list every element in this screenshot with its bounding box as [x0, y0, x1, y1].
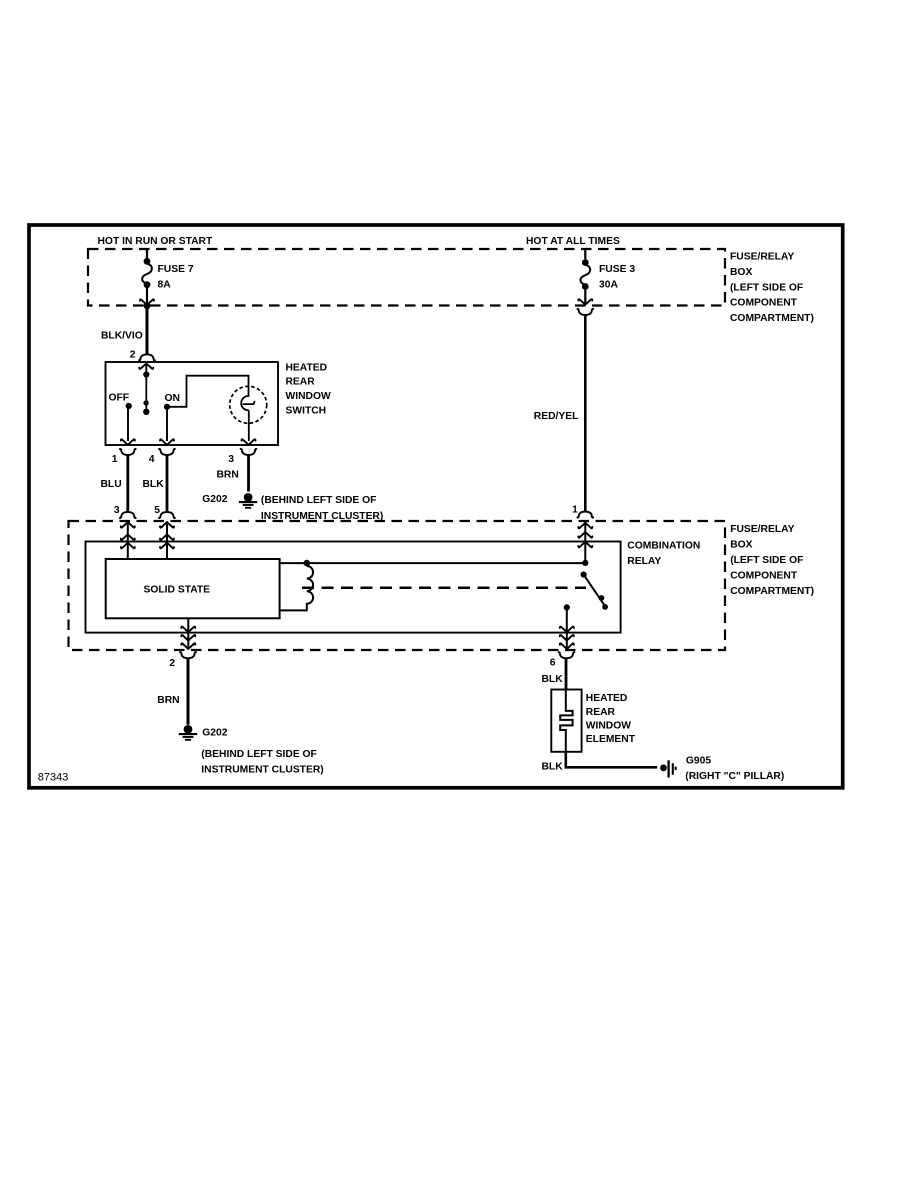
svg-text:(RIGHT "C" PILLAR): (RIGHT "C" PILLAR) [685, 771, 784, 782]
heated rear window switch box U1 [106, 362, 279, 445]
arrowhead into switch pin 2 [139, 363, 153, 369]
svg-text:FUSE/RELAY: FUSE/RELAY [730, 252, 794, 263]
wire relay output to pin 6 [566, 607, 568, 649]
svg-text:8A: 8A [158, 280, 172, 291]
blade dot a [599, 595, 605, 601]
blade dot b [602, 604, 608, 610]
label FUSE/RELAY BOX (LEFT SIDE OF COMPONENT COMPARTMENT) bottom [730, 524, 814, 597]
junction dot at contact feed [582, 560, 588, 566]
outer diagram border frame [29, 225, 843, 788]
junction dot on fuse box edge [144, 302, 151, 309]
arrowhead at fuse box exit (right) [578, 299, 592, 305]
connector cup below fuse box (right) [577, 309, 593, 315]
ON terminal dot [164, 404, 170, 410]
svg-text:COMBINATION: COMBINATION [627, 541, 700, 552]
svg-text:HEATED: HEATED [586, 693, 628, 704]
svg-text:(LEFT SIDE OF: (LEFT SIDE OF [730, 555, 803, 566]
connector cup below relay pin 6 [559, 652, 575, 658]
label FUSE 7 8A [158, 264, 194, 291]
svg-text:3: 3 [228, 454, 234, 465]
switch blade dot b [143, 409, 149, 415]
svg-text:OFF: OFF [109, 392, 130, 403]
ground G202 (relay) [179, 725, 197, 740]
connector cup below switch pin 3 [241, 449, 257, 455]
combination relay inner box K1 [86, 542, 621, 633]
indicator lamp L1 [230, 386, 267, 423]
switch blade dot a [143, 400, 148, 405]
svg-text:WINDOW: WINDOW [586, 720, 631, 731]
label (BEHIND LEFT SIDE OF INSTRUMENT CLUSTER) [261, 495, 383, 522]
svg-text:G905: G905 [686, 755, 711, 766]
svg-text:COMPARTMENT): COMPARTMENT) [730, 586, 814, 597]
wire BRN [247, 455, 250, 492]
label HEATED REAR WINDOW SWITCH [286, 362, 331, 416]
solid state module box [106, 559, 280, 618]
svg-text:INSTRUMENT CLUSTER): INSTRUMENT CLUSTER) [201, 765, 323, 776]
chevrons at relay pin 2 [181, 635, 195, 649]
label (BEHIND LEFT SIDE OF INSTRUMENT CLUSTER) [201, 749, 323, 776]
switch common wire [145, 365, 147, 372]
dashed mechanical link [302, 586, 586, 589]
svg-text:FUSE 7: FUSE 7 [158, 264, 194, 275]
fuse F7 [142, 250, 152, 305]
wire relay pin 1 into contact [584, 521, 586, 563]
ground G202 (switch) [239, 493, 257, 508]
svg-text:3: 3 [114, 505, 120, 516]
svg-text:1: 1 [112, 454, 118, 465]
svg-text:COMPARTMENT): COMPARTMENT) [730, 313, 814, 324]
svg-text:REAR: REAR [586, 707, 616, 718]
svg-text:SWITCH: SWITCH [286, 406, 327, 417]
svg-text:RED/YEL: RED/YEL [534, 411, 579, 422]
svg-text:BLK: BLK [143, 479, 165, 490]
connector cup at relay pin 1 [577, 511, 593, 517]
switch blade wire [145, 375, 147, 410]
svg-text:BLK: BLK [542, 674, 564, 685]
svg-text:G202: G202 [202, 727, 227, 738]
svg-text:87343: 87343 [38, 771, 69, 783]
wire relay pin 5 into solid state [166, 521, 168, 559]
svg-text:(LEFT SIDE OF: (LEFT SIDE OF [730, 282, 803, 293]
svg-text:FUSE/RELAY: FUSE/RELAY [730, 524, 794, 535]
svg-text:30A: 30A [599, 280, 618, 291]
connector cup at relay pin 5 [159, 512, 175, 518]
chevrons at relay pin 3 [121, 522, 135, 548]
relay contact blade [584, 575, 605, 606]
wire BLU [126, 455, 129, 512]
label FUSE 3 30A [599, 264, 635, 291]
connector cup at relay pin 3 [120, 512, 136, 518]
relay contact pivot dot [581, 572, 587, 578]
wire BLK relay pin 6 to element [565, 658, 568, 689]
wire relay pin 3 into solid state [127, 521, 129, 559]
svg-text:FUSE 3: FUSE 3 [599, 264, 635, 275]
connector cup below relay pin 2 [180, 652, 196, 658]
arrowhead at fuse box exit (left) [140, 299, 154, 305]
arrowhead at relay pin 2 [181, 627, 195, 633]
svg-text:COMPONENT: COMPONENT [730, 298, 798, 309]
fuse F3 [580, 250, 590, 305]
svg-text:BRN: BRN [157, 695, 179, 706]
svg-text:2: 2 [169, 658, 175, 669]
wire OFF to pin 1 [127, 406, 129, 441]
relay output dot [564, 604, 570, 610]
svg-text:BOX: BOX [730, 540, 752, 551]
svg-text:(BEHIND LEFT SIDE OF: (BEHIND LEFT SIDE OF [201, 749, 317, 760]
chevrons at relay pin 5 [160, 522, 174, 548]
svg-text:HOT AT ALL TIMES: HOT AT ALL TIMES [526, 236, 620, 247]
OFF terminal dot [126, 403, 132, 409]
wire RED/YEL from fuse 3 to relay pin 1 [584, 315, 587, 511]
chevrons at relay pin 6 [560, 635, 574, 649]
svg-text:2: 2 [130, 349, 136, 360]
wire ON to pin 4 [166, 407, 168, 441]
label COMBINATION RELAY [627, 541, 700, 567]
label FUSE/RELAY BOX (LEFT SIDE OF COMPONENT COMPARTMENT) top [730, 252, 814, 325]
arrowhead at switch pin 4 [160, 439, 174, 445]
svg-text:HEATED: HEATED [286, 362, 328, 373]
label HEATED REAR WINDOW ELEMENT [586, 693, 636, 745]
svg-text:RELAY: RELAY [627, 556, 661, 567]
heated rear window element box [551, 690, 581, 752]
connector cup below switch pin 1 [120, 449, 136, 455]
svg-text:WINDOW: WINDOW [286, 391, 331, 402]
connector cup at switch pin 2 [139, 354, 155, 360]
svg-text:(BEHIND LEFT SIDE OF: (BEHIND LEFT SIDE OF [261, 495, 377, 506]
combination relay dashed box [69, 521, 726, 650]
svg-text:5: 5 [154, 505, 160, 516]
ground G905 symbol [660, 760, 676, 777]
svg-text:BOX: BOX [730, 267, 752, 278]
svg-text:COMPONENT: COMPONENT [730, 570, 798, 581]
arrowhead at switch pin 1 [121, 439, 135, 445]
wire ON to indicator lamp [167, 376, 249, 407]
switch common dot [143, 371, 149, 377]
arrowhead at relay pin 6 [560, 627, 574, 633]
svg-text:REAR: REAR [286, 377, 316, 388]
svg-text:6: 6 [550, 658, 556, 669]
svg-text:G202: G202 [202, 494, 227, 505]
svg-text:HOT IN RUN OR START: HOT IN RUN OR START [98, 236, 213, 247]
svg-text:BLU: BLU [101, 479, 122, 490]
svg-text:1: 1 [572, 505, 578, 516]
svg-text:ON: ON [165, 393, 180, 404]
wire lamp to pin 3 [248, 410, 250, 441]
wire BLK [166, 455, 169, 512]
svg-text:4: 4 [149, 454, 155, 465]
wire solid state output to pin 2 [187, 618, 189, 650]
svg-text:SOLID STATE: SOLID STATE [144, 585, 211, 596]
svg-text:BLK: BLK [542, 761, 564, 772]
relay coil [280, 566, 314, 610]
wire BRN to ground [187, 658, 190, 725]
fuse/relay box (top, dashed) [88, 249, 725, 306]
chevrons at relay pin 1 [578, 523, 592, 548]
wire solid state to coil / contact [280, 562, 586, 564]
connector cup below switch pin 4 [159, 449, 175, 455]
junction dot at coil top [304, 560, 311, 567]
svg-text:BRN: BRN [217, 470, 239, 481]
heating element resistive symbol [560, 690, 572, 752]
wire BLK element to G905 [566, 752, 657, 768]
svg-text:BLK/VIO: BLK/VIO [101, 330, 143, 341]
arrowhead at switch pin 3 [242, 439, 256, 445]
svg-text:ELEMENT: ELEMENT [586, 734, 636, 745]
wire BLK/VIO from fuse 7 to switch [146, 306, 149, 354]
